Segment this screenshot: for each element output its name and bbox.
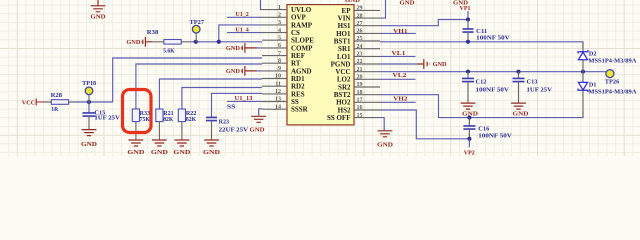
power port GND (pin22 PGND)	[380, 59, 447, 69]
svg-text:MSS1P4-M3/89A: MSS1P4-M3/89A	[588, 89, 636, 96]
wire pin3 RAMP with riser to R38 row	[219, 25, 262, 42]
svg-text:C13: C13	[527, 78, 538, 85]
wire pin4 CS	[227, 32, 262, 34]
wire pin18 BST2 row to D1/C16	[380, 95, 583, 118]
resistor R33 75K	[132, 109, 150, 140]
test point TP18	[82, 80, 96, 102]
ground (R22)	[173, 140, 191, 156]
svg-text:TP27: TP27	[190, 19, 205, 26]
svg-text:1R: 1R	[51, 106, 58, 113]
ground (R21)	[151, 140, 169, 156]
svg-text:GND: GND	[433, 61, 447, 68]
svg-text:SSSR: SSSR	[291, 106, 309, 114]
svg-text:82K: 82K	[163, 116, 173, 123]
IC right pins 15-29 with numbers	[354, 6, 380, 119]
wire pin8 RT row to R33	[136, 64, 262, 109]
svg-text:MSS1P4-M3/89A: MSS1P4-M3/89A	[588, 57, 636, 64]
svg-text:GND: GND	[81, 141, 98, 148]
svg-text:GND: GND	[377, 141, 394, 148]
svg-text:GND: GND	[400, 0, 415, 6]
diode D2 MSS1P4-M3/89A	[578, 42, 637, 72]
svg-text:C16: C16	[478, 125, 489, 132]
svg-text:VL2: VL2	[392, 72, 406, 79]
wire pin11 RD2 row to R22	[182, 88, 262, 110]
resistor R22 82K	[178, 109, 196, 140]
svg-text:GND: GND	[127, 149, 145, 156]
junction (VP1/C11)	[466, 17, 470, 21]
svg-text:R23: R23	[219, 118, 230, 125]
svg-text:U1_13: U1_13	[235, 95, 253, 102]
wire pin25 BST1 row to D2	[380, 42, 583, 48]
svg-text:GND: GND	[173, 149, 191, 156]
svg-text:SS: SS	[227, 103, 236, 110]
wire pin1 UVLO up off-sheet	[261, 0, 263, 10]
ground (C13)	[511, 103, 529, 118]
wire pin12 RES row to C23	[212, 93, 263, 117]
diode D1 MSS1P4-M3/89A	[578, 72, 637, 118]
resistor R28 1R	[46, 92, 75, 113]
svg-text:75K: 75K	[140, 116, 150, 123]
resistor R38 5.6K	[147, 29, 190, 54]
svg-text:R28: R28	[51, 92, 63, 99]
resistor R21 82K	[156, 109, 174, 140]
svg-text:1UF 25V: 1UF 25V	[527, 86, 553, 93]
svg-text:R38: R38	[147, 29, 159, 36]
power port GND (left of R38)	[126, 37, 152, 47]
ground (C15)	[81, 130, 98, 149]
svg-text:VH2: VH2	[393, 95, 407, 102]
svg-text:22UF 25V: 22UF 25V	[219, 126, 249, 133]
svg-text:1UF 25V: 1UF 25V	[94, 115, 120, 122]
svg-text:GND: GND	[91, 13, 106, 20]
wire pin28 VIN up off-sheet	[380, 0, 386, 18]
svg-text:82K: 82K	[186, 116, 196, 123]
svg-text:100NF 50V: 100NF 50V	[478, 133, 512, 140]
junction (C15/TP18)	[87, 100, 91, 104]
svg-text:SS OFF: SS OFF	[327, 114, 351, 122]
wire pin2 OVP	[227, 16, 262, 18]
svg-text:5.6K: 5.6K	[163, 48, 175, 55]
junction (C13)	[516, 70, 520, 74]
ground (top-left)	[91, 0, 106, 20]
wire pin20 LO2	[380, 78, 416, 80]
svg-text:C12: C12	[476, 78, 487, 85]
capacitor C16 100NF 50V	[463, 118, 512, 140]
svg-text:GND: GND	[226, 68, 240, 75]
wire R38 row to pin5 SLOPE	[190, 41, 262, 43]
ground (pin14 SSSR)	[250, 116, 267, 133]
wire pin14 SSSR to ground	[259, 109, 262, 116]
power port VCC	[22, 98, 46, 106]
net label VP2 with stub	[464, 139, 475, 157]
junction (D1)	[581, 70, 585, 74]
svg-text:VP1: VP1	[460, 5, 471, 12]
power port GND (pin9 AGND)	[226, 66, 262, 76]
svg-text:GND: GND	[226, 45, 240, 52]
net label VP1 with stub	[460, 5, 471, 20]
test point TP27	[190, 19, 205, 42]
capacitor C13 1UF 25V	[513, 72, 553, 103]
svg-text:TP26: TP26	[605, 79, 620, 86]
wire pin16 HS2 to VP2 row	[380, 110, 469, 139]
capacitor C11 100NF 50V	[463, 20, 511, 42]
wire pin10 RD1 row to R21	[159, 79, 262, 109]
junction (C16 bottom / VP2)	[467, 137, 471, 141]
junction (C12)	[466, 70, 470, 74]
svg-text:TP18: TP18	[82, 80, 96, 87]
highlight box around R33	[123, 90, 152, 133]
power port GND (pin6 COMP)	[226, 43, 262, 53]
wire pin17 HO2	[380, 101, 416, 103]
wire pin23 LO1	[380, 55, 415, 57]
junction (C11 bottom)	[466, 40, 470, 44]
wire pin26 HO1	[380, 32, 416, 34]
wire pin21 VCC long row	[380, 71, 606, 73]
svg-text:GND: GND	[151, 149, 169, 156]
ground (C12)	[461, 103, 479, 118]
test point TP26	[605, 70, 620, 86]
wire pin13 SS	[227, 100, 262, 102]
ground (pin15 SS OFF)	[377, 131, 394, 149]
capacitor R23 22UF 25V	[206, 117, 249, 140]
svg-text:100NF 50V: 100NF 50V	[476, 35, 510, 42]
op-amp U1 (controller IC body)	[287, 5, 354, 125]
svg-text:VCC: VCC	[22, 99, 36, 106]
svg-text:GND: GND	[513, 111, 530, 118]
wire pin27 HS1 to VP1 node	[380, 20, 468, 26]
svg-text:VP2: VP2	[464, 149, 475, 156]
IC left pins 1-14 with numbers	[262, 5, 287, 111]
svg-text:GND: GND	[250, 126, 265, 133]
svg-text:GND: GND	[126, 39, 140, 46]
svg-text:GND: GND	[345, 0, 360, 4]
svg-text:GND: GND	[462, 111, 479, 118]
capacitor C12 100NF 50V	[462, 72, 509, 103]
junction (TP27 stem)	[194, 40, 198, 44]
ground (R33)	[127, 140, 145, 156]
junction (C16 top)	[467, 116, 471, 120]
wire pin15 SS OFF to ground	[380, 118, 384, 131]
wire pin7 REF long row to VCC node	[113, 58, 262, 102]
ground (C23)	[203, 140, 221, 156]
svg-text:GND: GND	[203, 149, 221, 156]
capacitor C15 1UF 25V	[83, 102, 121, 130]
wire VCC row to riser	[74, 101, 113, 103]
svg-text:100NF 50V: 100NF 50V	[476, 86, 510, 93]
junction (pin3 riser)	[217, 40, 221, 44]
svg-text:D1: D1	[589, 82, 597, 89]
